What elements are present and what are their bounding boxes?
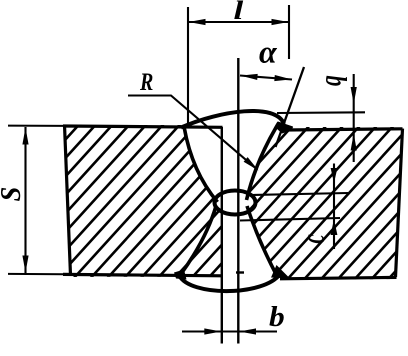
dimension alpha: left arrow: [241, 74, 258, 80]
dimension l: left extension line: [187, 7, 189, 124]
alpha reference slant line: [276, 67, 305, 147]
right plate bottom edge stub at gap: [236, 271, 244, 273]
svg-text:l: l: [234, 0, 244, 25]
weld bottom bead: [180, 276, 279, 291]
dimension b: right arrow (left-pointing): [239, 328, 256, 334]
svg-text:S: S: [0, 187, 26, 202]
dimension c: upper arrow (down): [331, 168, 338, 183]
dimension q: lower arrow (up): [351, 134, 357, 151]
dimension b: dimension line: [182, 330, 277, 332]
fusion line lower-right: [247, 206, 277, 276]
left plate left edge: [65, 125, 71, 275]
dimension l: right extension line: [288, 5, 290, 59]
left plate hatching: [0, 120, 386, 281]
left plate top edge (with S extension to left): [8, 126, 223, 128]
left plate bottom edge (with S extension to left): [8, 274, 223, 276]
dimension q: vertical line: [353, 74, 355, 162]
junction blob bottom-left: [174, 270, 187, 280]
dimension c: vertical line: [333, 164, 335, 250]
svg-text:q: q: [313, 75, 348, 86]
svg-text:b: b: [269, 302, 285, 332]
dimension l: right arrow: [272, 19, 289, 25]
leader R arrow: [244, 157, 259, 170]
fusion line upper-right: [247, 123, 280, 201]
dimension S: bottom arrow (down): [22, 256, 28, 273]
right plate top edge: [285, 129, 403, 130]
dimension l: dimension line: [188, 21, 289, 23]
dimension alpha: right arrow: [274, 75, 291, 81]
svg-text:α: α: [259, 34, 278, 70]
weld root circle: [215, 191, 256, 215]
dimension c: upper extension line: [252, 193, 348, 195]
dimension q: upper arrow (down): [351, 87, 357, 104]
weld centerline / gap edge right (extension line for b): [237, 58, 239, 344]
junction blob top-right: [276, 122, 293, 134]
fusion line lower-left: [180, 206, 217, 276]
dimension S: top arrow (up): [22, 128, 28, 145]
right plate right edge: [396, 129, 403, 277]
svg-text:R: R: [139, 68, 153, 96]
dimension alpha: dimension line: [240, 76, 292, 80]
dimension S: dimension line: [24, 127, 26, 273]
dimension q: extension line (bead top level): [277, 111, 365, 114]
dimension b: left arrow (right-pointing): [204, 328, 221, 334]
leader R line: [128, 96, 256, 169]
dimension c: lower extension line: [240, 218, 340, 221]
right plate bottom edge: [280, 277, 397, 278]
svg-text:c: c: [295, 234, 332, 244]
weld top bead: [181, 111, 284, 128]
junction blob bottom-right: [271, 265, 290, 279]
fusion line upper-left: [184, 127, 218, 203]
dimension l: left arrow: [189, 19, 206, 25]
dimension c: lower arrow (up): [331, 219, 338, 235]
right plate hatching: [97, 122, 408, 285]
gap edge left (extension line for b): [221, 127, 223, 344]
